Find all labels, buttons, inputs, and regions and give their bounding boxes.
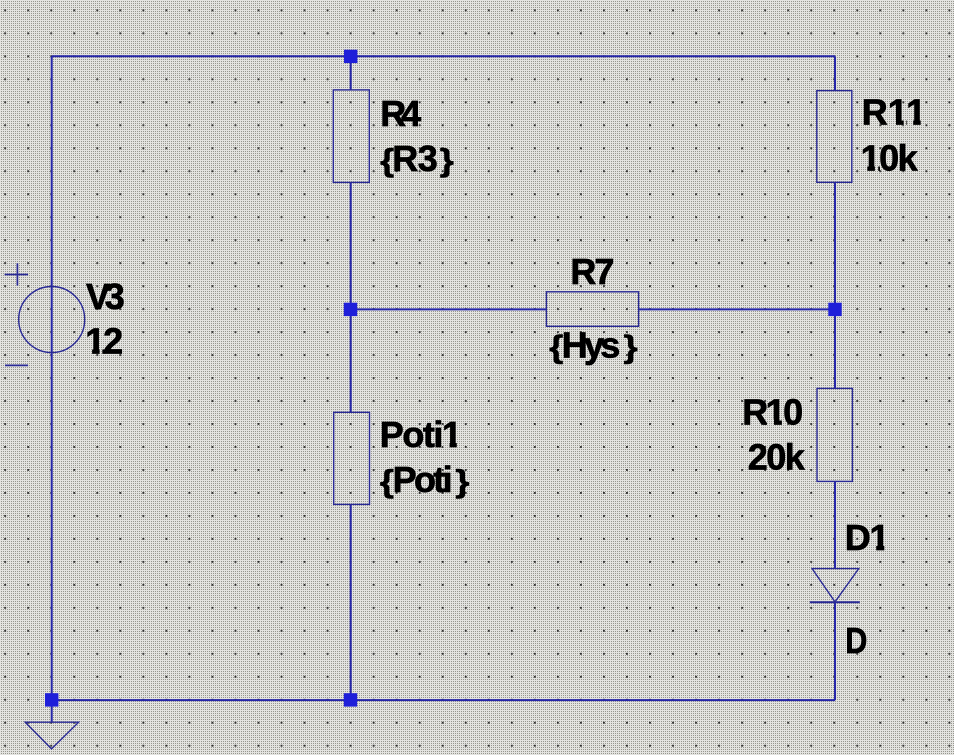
voltage source V3 plus mark [5,263,29,285]
diode D1 cathode bar [810,601,860,603]
svg-text:Poti: Poti [393,459,453,500]
wire middle vertical: R4 pin 2 to middle node [350,182,352,309]
svg-text:Hys: Hys [562,325,621,366]
junction node bottom middle (Poti1 bottom) [344,693,357,706]
resistor R4 body [333,90,369,182]
voltage source V3 body [19,287,85,353]
wire middle horizontal: R7 pin 2 to right node [639,308,835,310]
wire right vertical: R11 pin 2 to middle node [834,182,836,309]
svg-text:}: } [440,143,454,178]
diode D1 body [812,569,859,602]
wire middle vertical: top node to R4 pin 1 [350,56,352,90]
svg-text:10k: 10k [861,138,919,179]
wire right vertical: top corner to R11 pin 1 [834,56,836,90]
resistor Poti1 body [334,412,370,504]
junction node bottom left (ground tap) [45,693,58,706]
ground symbol [25,722,78,749]
wire middle vertical: Poti1 pin 2 to bottom node [350,504,352,700]
wire left vertical (V3 branch) [51,56,53,700]
wire bottom horizontal ground net [52,699,835,701]
junction node right middle (R7/R11/R10) [828,303,841,316]
svg-text:}: } [624,330,638,365]
svg-text:20k: 20k [748,437,806,478]
wire right vertical: middle node to R10 pin 1 [834,309,836,388]
junction node at middle (R4/Poti1/R7) [344,303,357,316]
wire middle vertical: middle node to Poti1 pin 1 [350,309,352,412]
voltage source V3 minus mark [5,364,28,366]
svg-text:12: 12 [85,321,123,362]
svg-text:R4: R4 [380,93,421,134]
resistor R7 body [546,292,638,327]
resistor R11 body [817,91,852,183]
svg-text:V3: V3 [86,276,125,317]
svg-text:D: D [845,517,871,558]
wire middle horizontal: middle node to R7 pin 1 [351,308,547,310]
svg-text:D: D [845,620,867,661]
svg-text:Poti1: Poti1 [380,414,462,455]
wire top horizontal net [52,55,835,57]
junction node at top (R4 tap) [344,50,357,63]
svg-text:R3: R3 [392,138,438,179]
wire right vertical: D1 cathode to bottom corner [834,602,836,700]
wire right vertical: R10 pin 2 to D1 anode [834,481,836,568]
svg-text:R7: R7 [570,251,614,292]
svg-text:}: } [455,464,469,499]
resistor R10 body [817,388,852,481]
wire ground stem [51,700,53,722]
